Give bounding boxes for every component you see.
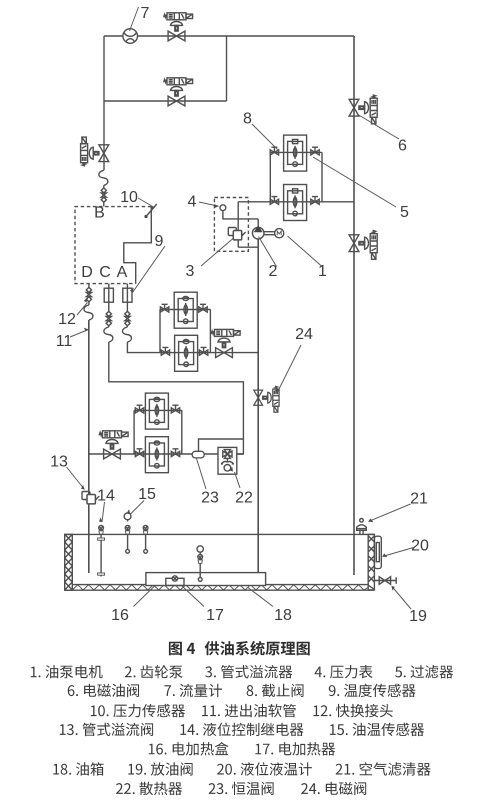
svg-text:16: 16: [111, 607, 129, 624]
wire right main vertical: [353, 36, 355, 575]
wire C-port line: [108, 284, 110, 327]
svg-text:6: 6: [398, 138, 407, 155]
legend: component list rows 1-24: [31, 665, 453, 795]
stop valve low rad upper right: [171, 405, 179, 413]
mid radiator upper: [174, 292, 197, 328]
filter lower: [284, 185, 307, 221]
svg-text:1: 1: [318, 263, 327, 280]
wire filter bypass right vertical: [321, 152, 323, 201]
leader 22: [235, 472, 241, 488]
wire filter lower line: [238, 201, 354, 203]
caption: 图4 供油系统原理图: [169, 641, 310, 656]
svg-text:8: 8: [243, 111, 252, 128]
oil temp sensor 15: [124, 513, 131, 553]
svg-text:4: 4: [188, 194, 197, 211]
svg-text:7: 7: [141, 5, 150, 22]
leader 15: [130, 501, 144, 515]
leader 24: [277, 345, 301, 393]
leader 18: [248, 588, 273, 607]
wire pump riser: [257, 219, 259, 227]
leader 13: [67, 467, 85, 490]
leader arrowheads: [81, 204, 395, 591]
relief valve 3: [228, 228, 245, 240]
svg-text:11: 11: [56, 333, 73, 350]
svg-text:18: 18: [274, 607, 292, 624]
stop valve filter2 left: [270, 197, 278, 205]
svg-text:22: 22: [235, 490, 253, 507]
hose C-line: [104, 327, 113, 342]
stop valve 8: [270, 147, 278, 155]
svg-text:15: 15: [138, 486, 156, 503]
temperature sensor 9 A-line: [123, 288, 132, 302]
wire D-port tank line: [88, 320, 90, 573]
lower radiator upper: [145, 393, 168, 429]
svg-text:21: 21: [410, 491, 428, 508]
level gauge 20: [374, 536, 381, 568]
machine dashed box: [75, 207, 151, 284]
leader 2: [259, 237, 277, 267]
diagram number labels: [50, 5, 429, 625]
leader 5: [313, 157, 396, 207]
wire relief return: [238, 246, 258, 248]
svg-text:3: 3: [186, 263, 195, 280]
heater box probe: [197, 546, 203, 582]
leader 11: [70, 330, 89, 338]
svg-text:10: 10: [120, 189, 138, 206]
wire mid radiator upper branch: [160, 310, 210, 353]
thermostat valve 23: [192, 451, 204, 458]
tank bottom zigzag: [72, 585, 368, 590]
wire top header line: [104, 35, 354, 37]
wire C-port routing to cooler: [109, 342, 244, 454]
solenoid oil valve lower radiator: [99, 431, 128, 459]
solenoid oil valve B-line: [81, 137, 109, 166]
svg-text:5: 5: [400, 204, 409, 221]
quick coupling A-line: [125, 311, 130, 325]
wire thermostat top branch: [199, 439, 244, 451]
heater box 16: [146, 573, 266, 586]
temperature sensor 9 C-line: [104, 288, 113, 302]
leader 8: [252, 124, 278, 150]
leader 4: [199, 202, 219, 206]
leader 17: [182, 586, 204, 607]
svg-text:12: 12: [58, 311, 76, 328]
leader 6: [357, 114, 399, 139]
leader 10: [138, 198, 155, 208]
stop valve low rad upper left: [135, 405, 143, 413]
stop valve mid rad lower right: [199, 347, 207, 355]
lower radiator lower: [145, 437, 168, 473]
solenoid oil valve on top branch 1: [164, 13, 193, 41]
hose D-line: [84, 305, 93, 320]
heater 17: [166, 576, 184, 586]
radiator box 22: [218, 447, 237, 474]
leader 21: [369, 504, 411, 522]
motor 1: [275, 229, 284, 238]
electromagnetic valve 24: [254, 386, 279, 412]
wire second top branch: [104, 100, 227, 102]
leader 9: [133, 246, 166, 293]
leader 1: [288, 236, 323, 267]
svg-text:13: 13: [50, 454, 68, 471]
wire left vertical B-line upper: [103, 36, 105, 170]
flow meter 7: [123, 29, 138, 44]
leader 3: [201, 239, 233, 267]
leader 12: [77, 303, 88, 316]
relief valve 13: [82, 492, 99, 504]
svg-text:17: 17: [206, 607, 224, 624]
svg-text:19: 19: [409, 608, 427, 625]
air filter 21: [357, 519, 367, 535]
filter 5 upper: [284, 135, 307, 171]
wire filter bypass left vertical: [269, 152, 271, 201]
wire A-port line: [126, 284, 128, 327]
svg-text:C: C: [99, 264, 111, 281]
wire lower radiator main line: [89, 453, 244, 455]
leader 7: [130, 7, 139, 31]
wire pump discharge vertical: [237, 202, 239, 247]
pump unit dashed box: [214, 198, 248, 252]
svg-text:A: A: [117, 264, 128, 281]
wire gauge line: [223, 211, 258, 219]
machine box solid step edge: [124, 207, 152, 284]
stop valve filter1 right: [311, 147, 319, 155]
stop valve mid rad lower left: [161, 347, 169, 355]
wire B-line lower to machine box: [103, 185, 105, 206]
gear pump 2: [252, 225, 264, 239]
solenoid oil valve on right main lower: [349, 230, 377, 259]
quick coupling 12 B-line: [101, 188, 106, 202]
oil tank 18 shell: [65, 534, 375, 590]
wire lower radiator upper branch: [134, 410, 182, 454]
wire A-port to mid radiator line: [127, 342, 258, 353]
leader 19: [392, 587, 411, 610]
tank right wall hatching: [368, 536, 374, 590]
leader 16: [134, 586, 156, 607]
solenoid oil valve on top branch 2: [164, 78, 193, 106]
quick coupling D-line: [86, 287, 91, 301]
level relay probe 14: [98, 534, 105, 576]
svg-text:B: B: [94, 205, 105, 222]
svg-text:9: 9: [155, 233, 164, 250]
hose A-line: [122, 327, 131, 342]
stop valve low rad lower left: [135, 449, 143, 457]
svg-text:23: 23: [201, 490, 219, 507]
leader 14: [102, 502, 105, 522]
leader 23: [197, 459, 207, 490]
mid radiator lower: [175, 335, 198, 371]
solenoid oil valve 6: [349, 95, 377, 124]
wire filter upper line: [270, 151, 322, 153]
svg-text:14: 14: [97, 488, 115, 505]
stop valve mid rad upper left: [160, 304, 168, 312]
svg-text:D: D: [81, 264, 93, 281]
svg-text:2: 2: [269, 263, 278, 280]
pressure sensor 10: [144, 204, 156, 218]
leader 20: [383, 548, 414, 557]
leader lines: [67, 7, 414, 609]
wire branch connector vertical: [226, 36, 228, 101]
hose 11 B-line: [99, 170, 108, 185]
stop valve low rad lower right: [171, 449, 179, 457]
tank left wall hatching: [65, 534, 73, 590]
drain valve 19: [374, 577, 396, 585]
stop valve mid rad upper right: [199, 304, 207, 312]
quick coupling C-line: [106, 311, 111, 325]
wire motor shaft: [264, 232, 275, 235]
solenoid oil valve mid radiator: [211, 329, 240, 357]
pressure gauge 4: [220, 205, 226, 211]
svg-text:24: 24: [295, 326, 313, 343]
wire D-port line upper: [88, 284, 90, 305]
svg-text:20: 20: [411, 538, 429, 555]
stop valve filter2 right: [311, 197, 319, 205]
spare probe: [144, 534, 148, 553]
wire suction main vertical: [257, 239, 259, 573]
